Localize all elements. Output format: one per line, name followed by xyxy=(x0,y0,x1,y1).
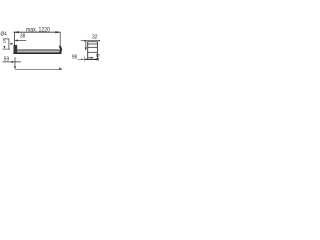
hole clamp block dark xyxy=(14,45,17,53)
rail left edge xyxy=(13,45,15,54)
long lower dimension line xyxy=(15,69,62,71)
rail bar top edge xyxy=(14,49,60,51)
svg-text:32: 32 xyxy=(92,34,98,40)
svg-text:38: 38 xyxy=(20,33,25,39)
arrowhead left of max dim xyxy=(14,31,19,33)
extension line left x14.6 xyxy=(14,32,16,45)
svg-text:98: 98 xyxy=(72,54,77,60)
extension below rail x15 xyxy=(14,57,16,66)
profile rung 3 xyxy=(88,46,98,48)
down arrow of 5 dim xyxy=(3,46,5,49)
profile top rung xyxy=(88,41,98,43)
extension x84.5 xyxy=(84,57,86,62)
profile left edge xyxy=(87,41,89,59)
arrowhead right of max dim xyxy=(55,31,60,33)
tick line at y49 xyxy=(2,48,10,50)
arrowhead 32 at profile left xyxy=(84,40,87,42)
profile rung 4 xyxy=(88,51,98,53)
leader line 98 xyxy=(77,58,81,60)
dimension line 38 xyxy=(15,39,27,41)
mini dim arrowhead xyxy=(91,57,94,59)
profile right edge xyxy=(96,41,98,59)
mini dimension line bottom right xyxy=(88,57,92,59)
svg-text:Ø4: Ø4 xyxy=(1,31,8,37)
rail bar bottom edge xyxy=(13,52,61,54)
dimension line 59 xyxy=(3,61,22,63)
svg-text:4,5: 4,5 xyxy=(96,58,100,62)
arrowhead 32 outside right xyxy=(98,40,100,42)
svg-text:5: 5 xyxy=(3,39,5,45)
leader arrow into rail end xyxy=(10,43,13,45)
label underline leader xyxy=(3,38,10,40)
wall leader down arrow xyxy=(85,47,87,51)
dimension line 32 xyxy=(81,40,100,42)
arrowhead 59 dim xyxy=(12,61,15,63)
right arrow of lower dim xyxy=(59,67,62,69)
extension line right x60.2 xyxy=(59,32,61,46)
dimension line max 1220 left segment xyxy=(14,31,61,33)
svg-text:59: 59 xyxy=(4,56,10,62)
leader vertical x8.9 xyxy=(8,39,10,49)
arrowhead left of 38 dim xyxy=(15,39,18,41)
profile rung 2 xyxy=(88,43,98,45)
rail bar fill xyxy=(14,50,61,52)
wall leader vertical x85.9 xyxy=(85,41,87,47)
arrowhead 98 xyxy=(81,58,84,60)
profile bottom edge xyxy=(85,58,98,60)
break curl at rail right end xyxy=(60,46,61,54)
down arrow at x15 xyxy=(14,66,16,69)
svg-text:max. 1220: max. 1220 xyxy=(26,27,50,34)
